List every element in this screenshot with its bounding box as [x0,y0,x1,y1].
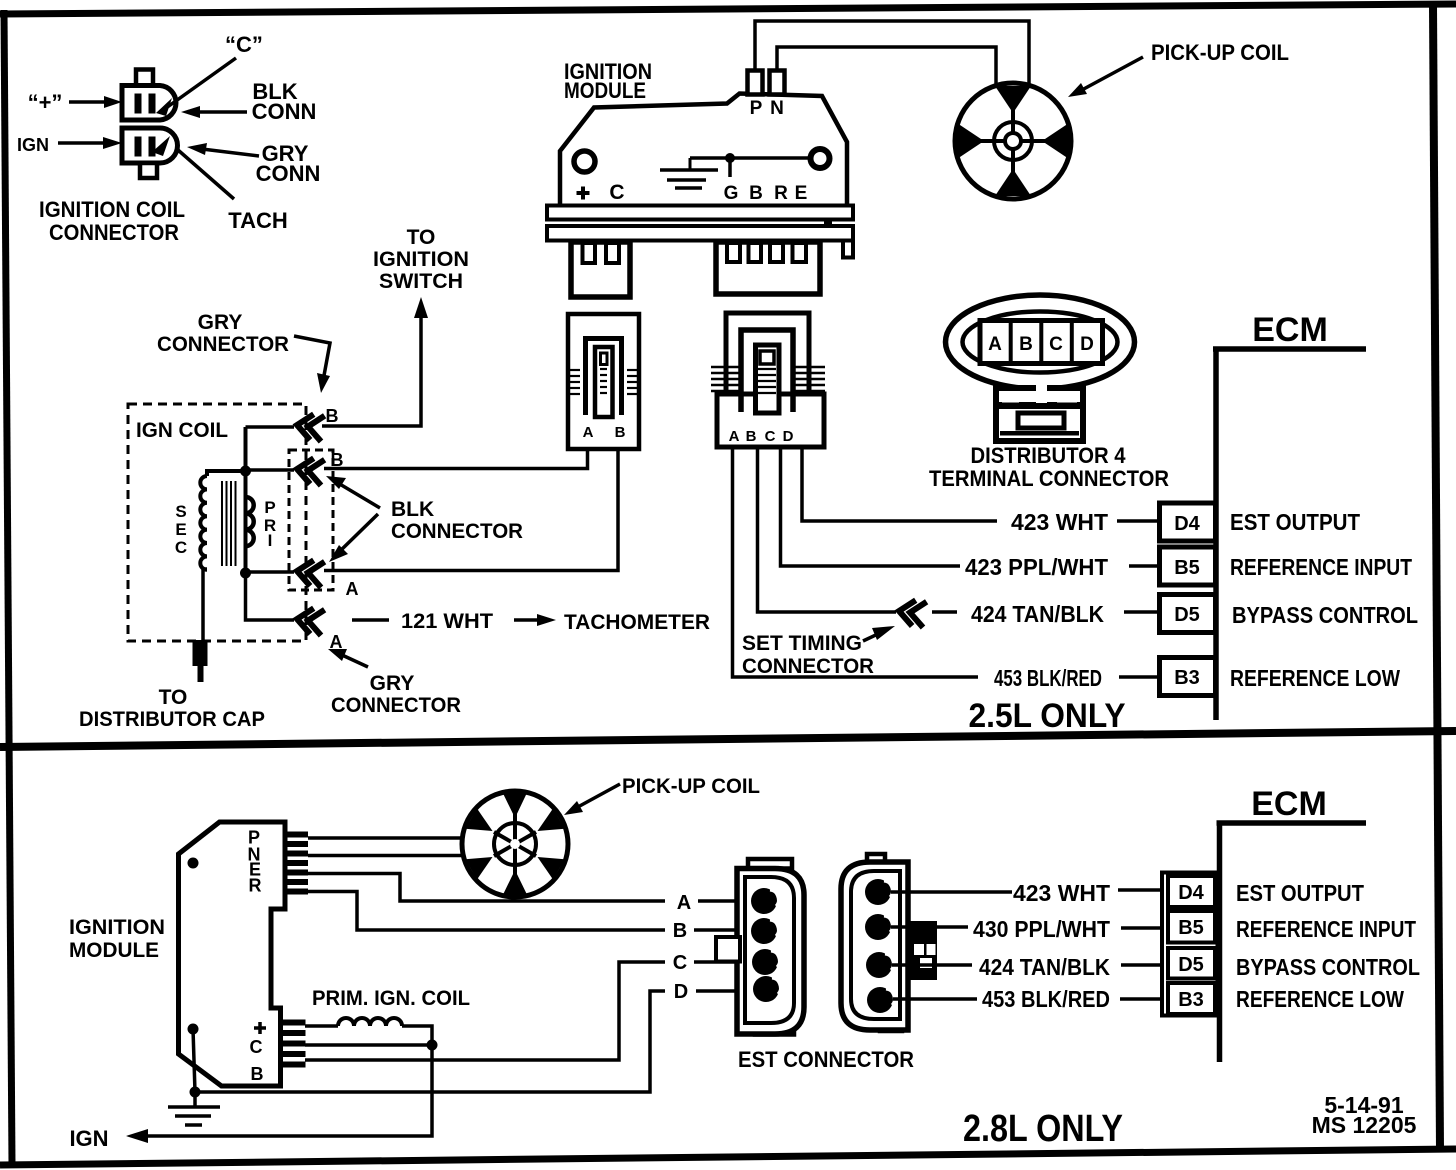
pick-up coil (2.5L) [955,83,1071,199]
node A label (2.8L) [677,892,691,914]
wire module P to pick-up coil [755,21,1029,85]
svg-text:B: B [326,406,339,426]
label EST OUTPUT (2.8L) [1236,880,1364,906]
label IGN (2.8L) [69,1126,108,1151]
node B label (2.8L) [673,920,687,942]
svg-text:“+”: “+” [28,90,63,115]
label BYPASS CONTROL [1232,602,1418,628]
label PICK-UP COIL (2.8L) with arrow [564,775,760,815]
wire chevron B top to ignition switch [322,297,428,426]
svg-text:CONN: CONN [252,99,317,124]
node A bottom label [330,632,343,652]
svg-text:TERMINAL CONNECTOR: TERMINAL CONNECTOR [929,466,1169,491]
svg-text:423 WHT: 423 WHT [1013,880,1110,906]
svg-text:IGN: IGN [17,135,49,155]
svg-text:P: P [264,498,275,517]
svg-text:MODULE: MODULE [564,78,646,103]
svg-text:B3: B3 [1178,989,1204,1011]
label DISTRIBUTOR 4 TERMINAL CONNECTOR [929,443,1169,491]
label GRY CONN with arrow [187,141,320,186]
svg-text:REFERENCE INPUT: REFERENCE INPUT [1236,916,1416,942]
svg-text:SET TIMING: SET TIMING [742,632,862,655]
svg-text:BYPASS CONTROL: BYPASS CONTROL [1232,602,1418,628]
label 2.5L ONLY [969,697,1126,735]
svg-text:CONNECTOR: CONNECTOR [742,655,874,678]
wire chevron to 424 TAN/BLK [932,610,957,614]
wire module B to EST C [305,962,665,1060]
svg-text:PICK-UP COIL: PICK-UP COIL [622,775,760,798]
connector block A-B-C-D [711,313,825,447]
ignition coil connector (top-left illustration) [122,70,178,179]
pick-up coil (2.8L) [462,791,568,897]
wire dot2 to chevron A inner [246,570,295,574]
svg-text:B5: B5 [1174,557,1200,579]
svg-text:B: B [673,920,687,942]
ign coil primary winding [246,427,277,573]
label 453 BLK/RED with stub [994,665,1159,691]
wire dot1 to chevron B inner [246,468,295,472]
label REFERENCE INPUT [1230,554,1412,580]
svg-text:DISTRIBUTOR CAP: DISTRIBUTOR CAP [79,708,265,731]
wire stub A to EST [698,899,757,903]
svg-text:2.5L ONLY: 2.5L ONLY [969,697,1126,735]
node D label (2.8L) [674,981,688,1003]
svg-text:IGN COIL: IGN COIL [136,419,228,442]
svg-text:A: A [346,579,359,599]
svg-text:B: B [749,183,763,204]
terminal box B5 (2.5L) [1160,547,1216,585]
svg-text:C: C [765,428,776,445]
svg-text:GRY: GRY [198,311,243,334]
svg-text:B5: B5 [1178,917,1204,939]
svg-text:R: R [249,876,262,896]
svg-text:P: P [750,98,763,119]
svg-text:REFERENCE LOW: REFERENCE LOW [1236,986,1404,1012]
label EST CONNECTOR [738,1047,914,1072]
node C label (2.8L) [673,952,687,974]
module mounting plate upper [547,206,853,220]
node A inner label [346,579,359,599]
wire module N to pick-up coil (2.8L) [308,854,464,858]
wire ABCD pin D to 423 WHT [802,447,997,521]
svg-text:453 BLK/RED: 453 BLK/RED [982,986,1110,1012]
label "C" with leader [166,32,263,108]
svg-text:424 TAN/BLK: 424 TAN/BLK [979,954,1110,980]
svg-text:BLK: BLK [391,498,434,521]
svg-text:CONNECTOR: CONNECTOR [157,333,289,356]
ignition module pin P [748,71,763,95]
svg-text:MS 12205: MS 12205 [1312,1112,1417,1138]
ground symbol [168,1092,220,1125]
ignition module (2.5L) [560,94,847,207]
chevron connector A bottom [295,606,324,635]
label GRY CONNECTOR lower with arrow [328,649,461,717]
wire 121 WHT stub [352,618,389,622]
wire AB pin A to chevron B inner [324,449,588,469]
wire module N to pick-up coil [777,47,996,86]
svg-text:R: R [774,183,788,204]
terminal box D5 (2.5L) [1160,595,1216,633]
wire ground to EST D [195,991,665,1092]
label REFERENCE LOW [1230,665,1400,691]
label EST OUTPUT [1230,509,1360,535]
label TO IGNITION SWITCH [373,226,469,293]
svg-text:C: C [250,1037,263,1057]
wire to distributor cap [193,640,208,682]
module mounting plate lower [547,218,853,258]
label IGN with arrow [17,135,122,155]
svg-text:C: C [673,952,687,974]
svg-text:CONNECTOR: CONNECTOR [391,520,523,543]
label 5-14-91 [1324,1092,1403,1118]
wire IGN feed [126,1045,432,1143]
module lower pin comb [281,1020,306,1068]
svg-text:423 PPL/WHT: 423 PPL/WHT [965,554,1108,580]
svg-text:121 WHT: 121 WHT [401,610,493,633]
wire to chevron B top [246,425,295,429]
module upper pin comb [283,832,308,895]
label 423 WHT (2.8L) with stub [1013,880,1162,906]
svg-text:TO: TO [407,226,436,249]
terminal box B5 (2.8L) [1168,911,1215,943]
label TACHOMETER [564,611,710,634]
ECM bracket (2.5L) [1213,311,1366,720]
svg-text:TACH: TACH [228,208,287,233]
module connector stub right [716,242,820,294]
svg-text:B: B [251,1064,264,1084]
ign coil secondary winding [175,471,246,640]
label 424 TAN/BLK (2.8L) with stub [979,954,1162,980]
label TO DISTRIBUTOR CAP [79,686,265,731]
label 423 WHT with stub [1011,509,1159,535]
label IGNITION MODULE (2.8L) [69,916,165,962]
label SET TIMING CONNECTOR with arrow [742,626,895,678]
svg-text:MODULE: MODULE [69,939,159,962]
label MS 12205 [1312,1112,1417,1138]
svg-text:A: A [583,424,594,441]
label IGN COIL [136,419,228,442]
label 121 WHT [401,610,493,633]
svg-text:S: S [175,502,186,521]
chevron set timing connector [897,598,926,627]
svg-text:D4: D4 [1174,513,1200,535]
label IGNITION COIL CONNECTOR [39,197,185,245]
wire stub B to EST [694,928,757,932]
wire stub C to EST [694,960,757,964]
label 423 PPL/WHT with stub [965,554,1159,580]
svg-text:EST OUTPUT: EST OUTPUT [1230,509,1360,535]
ignition module (2.8L) [179,822,286,1086]
wire module + through primary coil [305,1018,432,1040]
svg-text:CONN: CONN [256,161,321,186]
node B top label [326,406,339,426]
wire EST to 424 TAN/BLK (2.8L) [892,963,972,967]
svg-text:2.8L ONLY: 2.8L ONLY [963,1108,1123,1150]
label PICK-UP COIL (2.5L) with arrow [1068,40,1289,97]
wire stub D to EST [696,989,757,993]
svg-text:C: C [1049,334,1063,355]
ignition module pin N [770,71,785,95]
blk connector dashed box [289,450,333,590]
label BYPASS CONTROL (2.8L) [1236,954,1420,980]
svg-text:N: N [770,98,784,119]
svg-text:IGNITION: IGNITION [373,248,469,271]
svg-text:B: B [1019,334,1033,355]
wire ABCD pin B to set timing chevron [758,447,897,612]
svg-text:423 WHT: 423 WHT [1011,509,1108,535]
svg-text:G: G [724,183,739,204]
svg-text:453 BLK/RED: 453 BLK/RED [994,665,1102,691]
svg-text:ECM: ECM [1252,311,1328,349]
wire AB pin B to chevron A inner [324,449,618,571]
label BLK CONNECTOR with arrows [326,476,523,562]
svg-text:CONNECTOR: CONNECTOR [49,220,179,245]
svg-text:TO: TO [159,686,188,709]
svg-text:CONNECTOR: CONNECTOR [331,694,461,717]
junction dot primary coil [427,1040,438,1051]
terminal box B3 (2.5L) [1160,658,1216,696]
label 430 PPL/WHT with stub [973,916,1162,942]
svg-text:D5: D5 [1174,604,1200,626]
chevron connector A inner [295,558,324,587]
svg-text:GRY: GRY [370,672,415,695]
wire ABCD pin A to 453 BLK/RED [733,447,979,677]
svg-text:PICK-UP COIL: PICK-UP COIL [1151,40,1289,65]
label 453 BLK/RED (2.8L) with stub [982,986,1162,1012]
svg-text:D: D [1080,334,1094,355]
svg-text:C: C [175,538,187,557]
EST connector left half [716,859,804,1035]
wire dot2 to chevron A bottom [246,573,295,620]
distributor 4 terminal connector [946,295,1135,441]
svg-text:A: A [677,892,691,914]
ign coil core [222,481,236,566]
svg-text:D: D [783,428,794,445]
svg-text:I: I [268,531,273,550]
EST connector right half [841,854,937,1031]
label TACH with leader [178,150,288,233]
wire module E to EST A [308,874,665,902]
label PRIM. IGN. COIL [312,987,470,1010]
svg-text:IGN: IGN [69,1126,108,1151]
ECM bracket (2.8L) [1217,785,1367,1062]
chevron connector B inner [295,456,324,485]
svg-text:B3: B3 [1174,667,1200,689]
chevron connector B top [295,412,324,441]
svg-text:EST CONNECTOR: EST CONNECTOR [738,1047,914,1072]
label IGNITION MODULE (2.5L) [564,59,652,103]
svg-text:D5: D5 [1178,954,1204,976]
svg-text:REFERENCE LOW: REFERENCE LOW [1230,665,1400,691]
svg-text:E: E [795,183,808,204]
svg-text:B: B [615,424,626,441]
svg-text:ECM: ECM [1251,785,1327,823]
terminal box B3 (2.8L) [1168,983,1215,1014]
wire module C to junction [305,1043,432,1047]
wire EST to 453 BLK/RED (2.8L) [893,997,977,1001]
junction dot coil top [240,466,251,477]
svg-text:DISTRIBUTOR 4: DISTRIBUTOR 4 [971,443,1127,468]
svg-text:B: B [746,428,757,445]
terminal box D4 (2.5L) [1160,503,1216,541]
svg-text:SWITCH: SWITCH [379,270,463,293]
svg-text:BYPASS CONTROL: BYPASS CONTROL [1236,954,1420,980]
wire EST to 423 WHT (2.8L) [891,890,1012,894]
svg-text:TACHOMETER: TACHOMETER [564,611,710,634]
terminal box D5 (2.8L) [1168,948,1215,979]
svg-text:424 TAN/BLK: 424 TAN/BLK [971,601,1104,627]
terminal boxes outer (2.8L) [1162,873,1218,1016]
connector block A-B [568,314,639,449]
label 424 TAN/BLK with stub [971,601,1159,627]
svg-text:“C”: “C” [225,32,263,57]
label 2.8L ONLY [963,1108,1123,1150]
module connector stub left [571,242,630,297]
label "+" with arrow [28,90,122,115]
terminal box D4 (2.8L) [1168,876,1215,907]
svg-text:PRIM. IGN. COIL: PRIM. IGN. COIL [312,987,470,1010]
junction dot coil bottom [240,568,251,579]
svg-text:EST OUTPUT: EST OUTPUT [1236,880,1364,906]
wire ABCD pin C to 423 PPL/WHT [781,447,961,566]
svg-text:C: C [609,181,624,204]
label REFERENCE LOW (2.8L) [1236,986,1404,1012]
svg-text:430 PPL/WHT: 430 PPL/WHT [973,916,1110,942]
svg-text:IGNITION: IGNITION [69,916,165,939]
svg-text:D: D [674,981,688,1003]
label BLK CONN with arrow [181,79,316,124]
label GRY CONNECTOR upper with arrow [157,311,330,393]
ground connection from module [188,1024,201,1098]
wire module P to pick-up coil (2.8L) [308,836,463,840]
label REFERENCE INPUT (2.8L) [1236,916,1416,942]
svg-text:D4: D4 [1178,882,1204,904]
svg-text:IGNITION COIL: IGNITION COIL [39,197,185,222]
svg-text:E: E [175,520,186,539]
wire EST to 430 PPL/WHT [891,925,968,929]
svg-text:REFERENCE INPUT: REFERENCE INPUT [1230,554,1412,580]
node B inner label [331,450,344,470]
ign coil dashed box [128,404,306,641]
wire module R to EST B [308,892,665,931]
svg-text:A: A [729,428,740,445]
arrow to tachometer [514,614,556,626]
svg-text:A: A [988,334,1002,355]
